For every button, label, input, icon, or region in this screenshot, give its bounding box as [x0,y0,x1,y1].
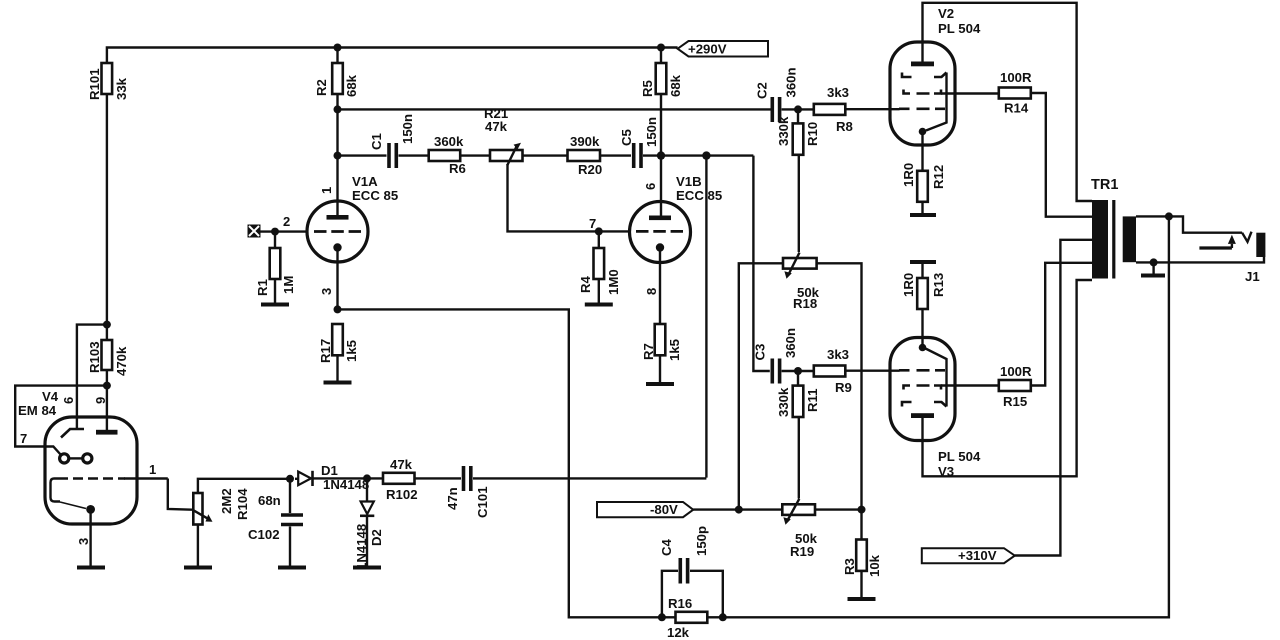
wire R6 to R21 [460,154,490,156]
svg-text:TR1: TR1 [1091,177,1118,193]
potentiometer R18 50k [783,258,817,269]
node cathode feedback tee [334,305,342,313]
svg-text:1R0: 1R0 [901,163,916,187]
svg-text:R2: R2 [314,79,329,96]
svg-text:2: 2 [283,214,290,229]
svg-text:3: 3 [319,288,334,295]
jack J1 spring arrow [1199,246,1232,249]
wire C1 to R6 [399,154,429,156]
node R2 top junction [334,44,342,52]
resistor R13 1R0 [917,278,928,309]
ground D2 [353,566,381,570]
V2 cathode [919,128,927,136]
flag -80V [597,502,693,517]
wire bottom feedback rail [723,216,1169,617]
resistor R102 47k [383,473,415,484]
EM84 shield electrode [51,479,61,502]
svg-text:100R: 100R [1000,70,1032,85]
svg-text:33k: 33k [114,77,129,100]
wire R20 to C5 [600,154,631,156]
op V1B tube ECC85 [630,202,691,263]
terminal input [248,225,261,238]
V2 beam to cathode [926,73,947,131]
svg-text:C101: C101 [475,486,490,518]
svg-text:EM 84: EM 84 [18,403,57,418]
node sleeve ground tee [1150,258,1158,266]
svg-text:1: 1 [149,462,156,477]
ground R1 [261,303,289,307]
EM84 target electrode pin6 [61,429,84,438]
svg-text:3k3: 3k3 [827,347,849,362]
svg-text:470k: 470k [114,346,129,376]
wire R19 to R3 [815,508,862,510]
svg-text:R10: R10 [805,122,820,146]
svg-text:R3: R3 [842,558,857,575]
svg-text:R15: R15 [1003,394,1027,409]
tube V3 PL504 [890,338,955,441]
ground EM84 cathode [77,566,105,570]
node R1 tee [271,228,279,236]
resistor R3 10k [860,510,862,540]
ground R4 [585,303,613,307]
wire R18 left to -80V column [739,263,783,509]
resistor R103 470k [106,325,108,340]
wire signal bus V1A anode to C2 [338,108,772,110]
wire input to V1A grid pin 2 [261,230,308,232]
svg-text:8: 8 [644,288,659,295]
svg-text:R1: R1 [255,279,270,296]
V3 beam to cathode [926,349,947,407]
svg-text:7: 7 [20,431,27,446]
V2 anode bar [911,62,934,67]
resistor R17 1k5 [332,324,343,355]
svg-text:R19: R19 [790,544,814,559]
svg-text:D1: D1 [321,463,338,478]
wire R104 bottom to ground [197,525,199,567]
svg-text:R20: R20 [578,162,602,177]
wire C1 left [338,154,387,156]
wire C5 to junction [643,154,753,156]
svg-text:R4: R4 [578,275,593,293]
EM84 grid dashes pin1 [58,477,125,480]
svg-text:390k: 390k [570,134,600,149]
wire V2 g2 to R14 [941,92,999,94]
V1B grid dashes [636,230,683,233]
svg-text:R16: R16 [668,596,692,611]
svg-text:100R: 100R [1000,364,1032,379]
V3 anode bar [911,413,934,418]
svg-text:R8: R8 [836,119,853,134]
svg-text:1k5: 1k5 [667,339,682,361]
node R3 tee [858,506,866,514]
svg-text:68n: 68n [258,493,281,508]
ground R17 [324,381,352,385]
wire EM84 pin7 loop [15,386,107,455]
svg-text:V1A: V1A [352,174,378,189]
svg-text:ECC 85: ECC 85 [676,188,722,203]
svg-text:C1: C1 [369,133,384,150]
svg-text:360n: 360n [784,67,799,97]
wire C101 to V1B column [473,477,706,479]
wire R102 to C101 [415,477,462,479]
potentiometer R104 2M2 [193,493,202,525]
resistor R1 1M [274,232,276,248]
svg-text:R5: R5 [640,80,655,97]
svg-text:R104: R104 [235,488,250,520]
wire R18 right to R3 column [817,263,862,509]
capacitor C5 150n [632,143,636,168]
capacitor C3 360n [770,359,774,384]
svg-text:1k5: 1k5 [344,340,359,362]
wire R1 to ground [274,279,276,303]
svg-text:1N4148: 1N4148 [323,477,369,492]
ground R3 [848,597,876,601]
node R103 top junction [103,321,111,329]
svg-text:3: 3 [76,538,91,545]
wire R21 wiper to V1B grid [508,164,631,231]
svg-text:R11: R11 [805,389,820,412]
V1A anode plate [327,215,349,220]
svg-text:3k3: 3k3 [827,85,849,100]
resistor R4 1M0 [598,231,600,248]
wire R21 to R20 [523,154,568,156]
svg-text:V1B: V1B [676,174,702,189]
svg-text:6: 6 [643,183,658,190]
node D2 tee [363,474,371,482]
wire R11 to R19 wiper [798,417,800,499]
V3 g1 dashes [899,369,945,372]
node R103 bottom junction [106,370,108,430]
node R5 top junction [657,44,665,52]
node R4 tee [595,227,603,235]
capacitor C2 360n [770,97,774,122]
capacitor C1 150n [387,143,391,168]
ground R12 [910,213,936,217]
svg-text:68k: 68k [344,74,359,97]
resistor R12 1R0 [917,171,928,202]
svg-text:1R0: 1R0 [901,273,916,297]
svg-text:360k: 360k [434,134,464,149]
V1A grid dashes [314,230,361,233]
resistor R20 390k [568,150,601,161]
svg-text:R7: R7 [641,343,656,360]
svg-text:J1: J1 [1245,269,1260,284]
node R10 tee [794,105,802,113]
V2 g2 dashes [904,90,942,94]
wire feedback to bottom rail [338,309,662,617]
svg-text:47k: 47k [390,457,413,472]
svg-text:6: 6 [61,397,76,404]
op V1A tube ECC85 [307,201,368,262]
node R11 tee [794,367,802,375]
svg-text:R13: R13 [931,273,946,297]
svg-text:1: 1 [319,187,334,194]
diode D1 1N4148 [298,472,311,486]
ground R7 [646,382,674,386]
V1B anode plate [649,216,671,221]
svg-text:C2: C2 [755,82,770,99]
svg-text:10k: 10k [867,554,882,577]
resistor R6 360k [429,150,461,161]
V3 beam plates [902,402,912,407]
svg-text:ECC 85: ECC 85 [352,188,398,203]
wire C3 to R9 [782,370,814,372]
svg-text:2M2: 2M2 [219,488,234,514]
svg-text:R102: R102 [386,487,418,502]
capacitor C101 47n [462,466,466,491]
node C4 right [719,613,727,621]
wire to EM84 pin 6 [77,325,107,430]
svg-text:R17: R17 [318,339,333,363]
wire R101 bottom [106,94,108,325]
V1A cathode [333,243,341,251]
ground R13 [910,260,936,264]
wire secondary top to J1 [1136,216,1242,232]
svg-text:47k: 47k [485,119,508,134]
svg-text:+290V: +290V [688,42,727,57]
svg-text:C5: C5 [619,129,634,146]
svg-text:R12: R12 [931,165,946,189]
svg-text:1M: 1M [281,276,296,294]
node -80V tee [735,506,743,514]
wire R104 top to C102 [198,479,290,493]
resistor R15 100R [999,380,1031,391]
flag +310V [922,548,1015,563]
svg-text:12k: 12k [667,625,690,640]
svg-text:R9: R9 [835,380,852,395]
wire right column down to C3 [753,156,769,371]
resistor R10 330k [797,109,799,123]
svg-text:7: 7 [589,216,596,231]
wire V2 anode to TR1 top [923,3,1093,201]
wire R14 to TR1 tap1 [1031,93,1092,217]
svg-text:-80V: -80V [650,502,678,517]
wire V1A anode column [336,94,338,215]
wire secondary bottom to J1 sleeve [1136,257,1264,262]
svg-text:150n: 150n [644,117,659,147]
ground J1 sleeve [1141,274,1165,278]
jack J1 break contact [1242,232,1251,242]
TR1 secondary winding [1123,216,1136,262]
node C4 left [658,613,666,621]
node mid column junction [702,151,710,159]
ground C102 [278,566,306,570]
resistor R2 [336,48,338,64]
wire R5 bottom to V1B anode [660,94,662,216]
wire R15 to TR1 tap3 [1031,263,1094,386]
wire -80V rail [693,508,782,510]
svg-text:330k: 330k [776,387,791,417]
wire top supply bus [107,48,678,64]
jack J1 tip contact [1256,233,1265,257]
V1B cathode [656,243,664,251]
wire C2 to R8 [782,108,814,110]
TR1 primary winding [1092,200,1108,279]
V2 beam plates [902,73,912,78]
svg-text:V4: V4 [42,389,59,404]
capacitor C102 68n [289,479,291,513]
resistor R14 100R [999,88,1031,99]
svg-text:150n: 150n [400,114,415,144]
resistor R7 1k5 [655,324,666,355]
node bus2 start [334,105,342,113]
svg-text:R6: R6 [449,161,466,176]
resistor R16 12k [662,616,676,618]
svg-text:47n: 47n [445,487,460,510]
svg-text:R18: R18 [793,296,817,311]
wire +310V to TR1 tap2 [1015,240,1092,556]
node V1B anode junction [657,151,665,159]
svg-text:360n: 360n [783,328,798,358]
svg-text:68k: 68k [668,74,683,97]
node C102 tee [286,475,294,483]
svg-text:PL 504: PL 504 [938,21,981,36]
wire V3 g2 to R15 [941,384,999,386]
ground R104 [184,566,212,570]
tube V2 PL504 [890,42,955,145]
svg-text:R103: R103 [87,341,102,373]
tube V4 EM84 [45,417,137,524]
svg-text:1M0: 1M0 [606,269,621,295]
resistor R9 3k3 [814,366,846,377]
V3 cathode [919,344,927,352]
svg-text:C4: C4 [659,538,674,556]
resistor R101 [102,63,113,94]
EM84 filament circles [60,454,69,463]
svg-text:+310V: +310V [958,548,997,563]
wire R10 to R18 wiper [798,155,800,252]
node C1 tee [334,152,342,160]
capacitor C4 150p with loop [662,571,678,618]
svg-text:V2: V2 [938,6,954,21]
svg-text:9: 9 [93,397,108,404]
flag +290V [678,41,768,57]
V2 g1 dashes [899,108,945,111]
svg-text:330k: 330k [776,116,791,146]
diode D2 1N4148 [366,478,368,501]
resistor R11 330k [797,371,799,386]
svg-text:R14: R14 [1004,101,1029,116]
svg-text:150p: 150p [694,526,709,556]
EM84 anode bar pin9 [96,430,118,435]
potentiometer R19 50k [782,504,815,515]
svg-text:C102: C102 [248,527,280,542]
wire R9 to V3 grid [845,370,899,372]
svg-text:R101: R101 [87,68,102,100]
TR1 core [1112,200,1115,279]
EM84 cathode [86,505,95,514]
V3 g2 dashes [904,386,942,390]
resistor R5 [660,48,662,64]
wire V3 anode to TR1 bottom [923,280,1093,476]
svg-text:PL 504: PL 504 [938,449,981,464]
potentiometer R21 47k [490,150,523,161]
svg-text:1N4148: 1N4148 [354,524,369,570]
svg-text:C3: C3 [753,344,768,361]
node feedback tee [1165,212,1173,220]
resistor R8 3k3 [814,104,846,115]
wire mid column down to C101 line [705,156,707,478]
wire R8 to V2 grid [845,108,899,110]
svg-text:D2: D2 [369,529,384,546]
